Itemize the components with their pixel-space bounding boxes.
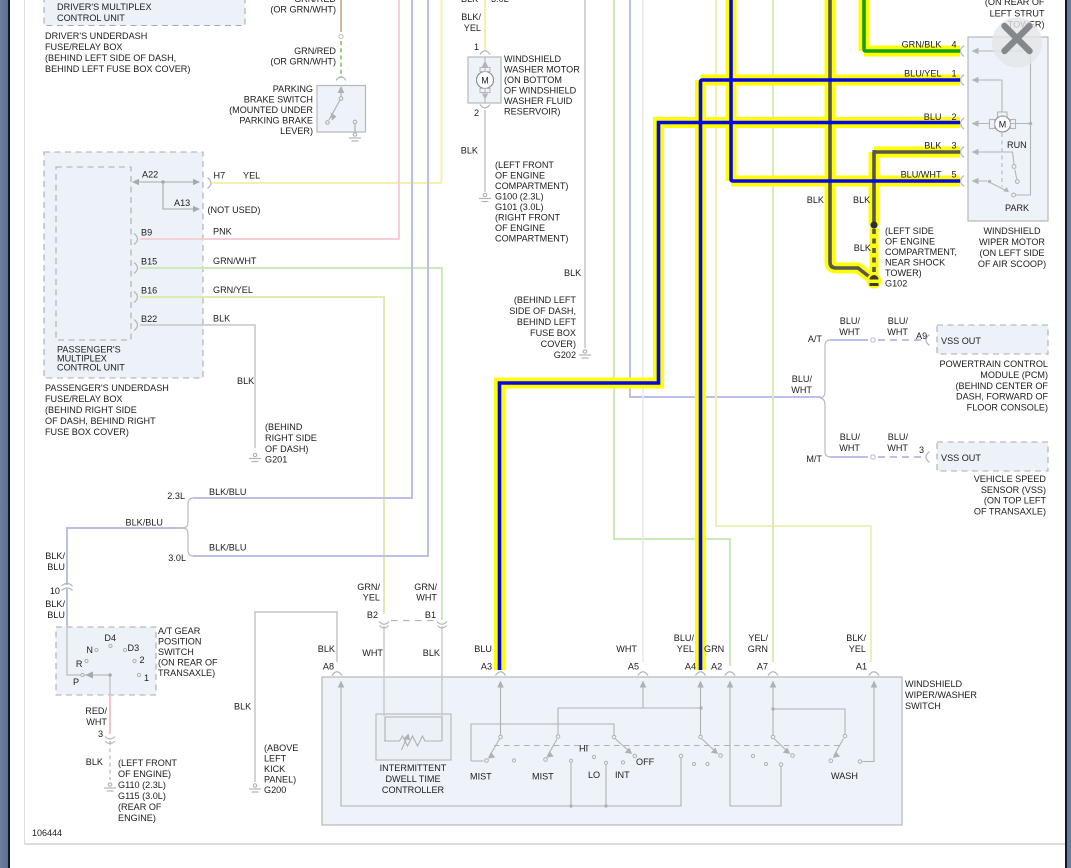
svg-text:SENSOR (VSS): SENSOR (VSS): [981, 485, 1046, 495]
svg-text:WHT: WHT: [362, 648, 383, 658]
svg-text:BLK: BLK: [924, 141, 941, 151]
svg-text:CONTROL UNIT: CONTROL UNIT: [57, 363, 125, 373]
svg-text:3: 3: [952, 141, 957, 151]
svg-text:WHT: WHT: [839, 327, 860, 337]
svg-text:WHT: WHT: [616, 644, 637, 654]
svg-text:(LEFT SIDE: (LEFT SIDE: [885, 226, 934, 236]
svg-text:COMPARTMENT): COMPARTMENT): [495, 234, 568, 244]
svg-text:LEFT: LEFT: [264, 754, 287, 764]
svg-text:A7: A7: [757, 662, 768, 672]
svg-text:BRAKE SWITCH: BRAKE SWITCH: [244, 95, 313, 105]
svg-text:N: N: [86, 645, 93, 655]
svg-text:3: 3: [919, 445, 924, 455]
svg-text:4: 4: [952, 40, 957, 50]
svg-text:1: 1: [144, 673, 149, 683]
svg-text:G202: G202: [554, 350, 576, 360]
svg-text:(REAR OF: (REAR OF: [118, 802, 162, 812]
svg-text:FUSE/RELAY BOX: FUSE/RELAY BOX: [45, 394, 123, 404]
svg-text:(BEHIND RIGHT SIDE: (BEHIND RIGHT SIDE: [45, 405, 137, 415]
svg-text:M: M: [999, 120, 1007, 130]
svg-text:G100 (2.3L): G100 (2.3L): [495, 192, 544, 202]
svg-text:2: 2: [952, 112, 957, 122]
svg-text:BLU/: BLU/: [792, 374, 813, 384]
svg-text:A13: A13: [174, 198, 190, 208]
svg-text:GRN: GRN: [748, 644, 768, 654]
svg-text:MODULE (PCM): MODULE (PCM): [980, 370, 1048, 380]
svg-text:BLU/: BLU/: [840, 316, 861, 326]
svg-text:OF AIR SCOOP): OF AIR SCOOP): [978, 259, 1046, 269]
svg-text:WASHER FLUID: WASHER FLUID: [504, 96, 573, 106]
svg-text:CONTROLLER: CONTROLLER: [382, 785, 445, 795]
svg-text:BLU/: BLU/: [888, 316, 909, 326]
svg-text:OF ENGINE: OF ENGINE: [495, 223, 545, 233]
svg-text:GRN/YEL: GRN/YEL: [213, 285, 253, 295]
svg-text:(NOT USED): (NOT USED): [208, 205, 261, 215]
svg-text:3.0L: 3.0L: [168, 553, 186, 563]
svg-text:D4: D4: [104, 633, 116, 643]
svg-text:BLU/: BLU/: [674, 633, 695, 643]
svg-text:FUSE/RELAY BOX: FUSE/RELAY BOX: [45, 42, 123, 52]
svg-text:M: M: [481, 76, 489, 86]
svg-text:FUSE BOX: FUSE BOX: [530, 328, 576, 338]
svg-text:WHT: WHT: [86, 717, 107, 727]
svg-text:VSS OUT: VSS OUT: [941, 336, 981, 346]
svg-text:POSITION: POSITION: [158, 637, 201, 647]
svg-text:WHT: WHT: [416, 593, 437, 603]
svg-text:G102: G102: [885, 279, 907, 289]
svg-text:BLU: BLU: [47, 610, 65, 620]
svg-text:GRN: GRN: [704, 644, 724, 654]
svg-text:1: 1: [474, 42, 479, 52]
svg-text:(MOUNTED UNDER: (MOUNTED UNDER: [229, 105, 313, 115]
svg-text:WHT: WHT: [839, 443, 860, 453]
svg-text:YEL: YEL: [464, 23, 481, 33]
svg-text:OF ENGINE: OF ENGINE: [885, 237, 935, 247]
svg-text:G115 (3.0L): G115 (3.0L): [118, 791, 166, 801]
svg-text:BLK: BLK: [853, 195, 870, 205]
svg-text:P: P: [73, 677, 79, 687]
svg-text:PANEL): PANEL): [264, 775, 296, 785]
svg-text:BLK: BLK: [807, 195, 824, 205]
svg-text:OF DASH, BEHIND RIGHT: OF DASH, BEHIND RIGHT: [45, 416, 156, 426]
svg-text:COMPARTMENT): COMPARTMENT): [495, 181, 568, 191]
svg-text:A/T GEAR: A/T GEAR: [158, 626, 201, 636]
svg-text:DASH, FORWARD OF: DASH, FORWARD OF: [956, 392, 1048, 402]
svg-text:BEHIND LEFT: BEHIND LEFT: [517, 317, 577, 327]
svg-text:WINDSHIELD: WINDSHIELD: [905, 679, 963, 689]
svg-text:SWITCH: SWITCH: [158, 647, 194, 657]
svg-text:WINDSHIELD: WINDSHIELD: [504, 54, 562, 64]
svg-text:(ON BOTTOM: (ON BOTTOM: [504, 75, 562, 85]
svg-text:BLK: BLK: [461, 0, 478, 4]
svg-text:PARKING BRAKE: PARKING BRAKE: [239, 116, 313, 126]
svg-text:WIPER MOTOR: WIPER MOTOR: [979, 237, 1045, 247]
svg-text:(BEHIND LEFT SIDE OF DASH,: (BEHIND LEFT SIDE OF DASH,: [45, 53, 176, 63]
svg-text:DRIVER'S UNDERDASH: DRIVER'S UNDERDASH: [45, 31, 147, 41]
svg-text:OF ENGINE): OF ENGINE): [118, 769, 171, 779]
svg-text:HI: HI: [579, 744, 588, 754]
svg-text:A22: A22: [142, 170, 158, 180]
svg-text:COMPARTMENT,: COMPARTMENT,: [885, 247, 957, 257]
svg-text:KICK: KICK: [264, 764, 285, 774]
svg-text:GRN/WHT: GRN/WHT: [213, 256, 257, 266]
svg-text:BLK: BLK: [854, 243, 871, 253]
svg-text:BLK: BLK: [461, 146, 478, 156]
svg-text:(ON TOP LEFT: (ON TOP LEFT: [984, 496, 1047, 506]
svg-text:A2: A2: [711, 662, 722, 672]
svg-text:M/T: M/T: [806, 454, 822, 464]
svg-text:PARK: PARK: [1005, 203, 1029, 213]
svg-text:A4: A4: [685, 662, 696, 672]
svg-text:GRN/: GRN/: [414, 582, 437, 592]
svg-text:NEAR SHOCK: NEAR SHOCK: [885, 258, 945, 268]
svg-text:B22: B22: [141, 314, 157, 324]
svg-text:YEL/: YEL/: [748, 633, 768, 643]
svg-text:10: 10: [50, 586, 60, 596]
svg-text:WHT: WHT: [887, 443, 908, 453]
svg-text:BLK: BLK: [237, 376, 254, 386]
svg-text:2: 2: [474, 108, 479, 118]
svg-text:FUSE BOX COVER): FUSE BOX COVER): [45, 427, 129, 437]
svg-text:5: 5: [952, 170, 957, 180]
svg-text:(BEHIND CENTER OF: (BEHIND CENTER OF: [956, 381, 1049, 391]
svg-text:BLK/: BLK/: [846, 633, 866, 643]
svg-text:(ON REAR OF: (ON REAR OF: [158, 658, 218, 668]
svg-text:GRN/BLK: GRN/BLK: [902, 40, 942, 50]
svg-text:LEVER): LEVER): [280, 126, 313, 136]
svg-text:CONTROL UNIT: CONTROL UNIT: [57, 13, 125, 23]
svg-text:H7: H7: [214, 171, 226, 181]
svg-text:RUN: RUN: [1007, 140, 1027, 150]
svg-text:YEL: YEL: [363, 593, 380, 603]
svg-text:3.0L: 3.0L: [491, 0, 509, 4]
svg-text:(OR GRN/WHT): (OR GRN/WHT): [270, 57, 336, 67]
svg-text:OF WINDSHIELD: OF WINDSHIELD: [504, 86, 577, 96]
svg-text:BLU/YEL: BLU/YEL: [904, 69, 941, 79]
svg-text:B1: B1: [425, 610, 436, 620]
svg-text:MIST: MIST: [532, 772, 554, 782]
svg-text:(ABOVE: (ABOVE: [264, 743, 298, 753]
svg-text:OF TRANSAXLE): OF TRANSAXLE): [974, 507, 1046, 517]
svg-text:INT: INT: [615, 770, 630, 780]
svg-text:YEL: YEL: [243, 171, 260, 181]
svg-text:TOWER): TOWER): [885, 268, 922, 278]
svg-text:BLK: BLK: [234, 702, 251, 712]
svg-text:FLOOR CONSOLE): FLOOR CONSOLE): [967, 403, 1048, 413]
svg-text:B15: B15: [141, 257, 157, 267]
svg-text:A8: A8: [323, 662, 334, 672]
svg-text:3: 3: [98, 729, 103, 739]
svg-text:(BEHIND: (BEHIND: [265, 422, 303, 432]
svg-text:PARKING: PARKING: [273, 84, 313, 94]
svg-text:G201: G201: [265, 455, 287, 465]
svg-text:LO: LO: [588, 770, 600, 780]
svg-text:YEL: YEL: [849, 644, 866, 654]
svg-text:(ON LEFT SIDE: (ON LEFT SIDE: [979, 248, 1044, 258]
svg-text:YEL: YEL: [677, 644, 694, 654]
svg-text:G101 (3.0L): G101 (3.0L): [495, 202, 544, 212]
svg-text:(RIGHT FRONT: (RIGHT FRONT: [495, 213, 560, 223]
svg-text:A5: A5: [628, 662, 639, 672]
svg-text:OF DASH): OF DASH): [265, 444, 308, 454]
svg-text:(ON REAR OF: (ON REAR OF: [985, 0, 1045, 7]
svg-text:A9: A9: [916, 331, 927, 341]
svg-text:BLK/: BLK/: [45, 551, 65, 561]
svg-text:RESERVOIR): RESERVOIR): [504, 107, 560, 117]
svg-text:DWELL TIME: DWELL TIME: [385, 774, 440, 784]
svg-text:BLK/: BLK/: [45, 599, 65, 609]
svg-text:(OR GRN/WHT): (OR GRN/WHT): [270, 5, 336, 15]
svg-text:PNK: PNK: [213, 227, 232, 237]
svg-text:BEHIND LEFT FUSE BOX COVER): BEHIND LEFT FUSE BOX COVER): [45, 64, 190, 74]
svg-text:DRIVER'S MULTIPLEX: DRIVER'S MULTIPLEX: [57, 2, 152, 12]
svg-text:G110 (2.3L): G110 (2.3L): [118, 780, 166, 790]
svg-text:PASSENGER'S UNDERDASH: PASSENGER'S UNDERDASH: [45, 383, 169, 393]
svg-text:ENGINE): ENGINE): [118, 813, 156, 823]
svg-text:2.3L: 2.3L: [167, 491, 185, 501]
svg-text:INTERMITTENT: INTERMITTENT: [380, 763, 447, 773]
svg-text:A/T: A/T: [808, 334, 823, 344]
svg-text:WASHER MOTOR: WASHER MOTOR: [504, 65, 580, 75]
svg-text:BLU: BLU: [47, 562, 65, 572]
svg-text:WASH: WASH: [831, 771, 858, 781]
svg-text:BLU/: BLU/: [840, 432, 861, 442]
svg-text:BLU/WHT: BLU/WHT: [901, 170, 942, 180]
svg-text:BLK/: BLK/: [461, 12, 481, 22]
svg-text:SIDE OF DASH,: SIDE OF DASH,: [509, 306, 576, 316]
svg-text:BLK/BLU: BLK/BLU: [209, 543, 246, 553]
svg-text:BLK: BLK: [564, 268, 581, 278]
svg-text:GRN/RED: GRN/RED: [294, 0, 336, 4]
svg-text:2: 2: [140, 655, 145, 665]
svg-text:WHT: WHT: [791, 385, 812, 395]
svg-text:OFF: OFF: [636, 757, 655, 767]
svg-text:GRN/RED: GRN/RED: [294, 46, 336, 56]
svg-text:RED/: RED/: [85, 706, 107, 716]
svg-text:BLU/: BLU/: [888, 432, 909, 442]
svg-text:A3: A3: [481, 662, 492, 672]
svg-text:106444: 106444: [32, 828, 62, 838]
svg-text:B9: B9: [141, 228, 152, 238]
svg-text:BLK: BLK: [86, 757, 103, 767]
svg-text:BLU: BLU: [474, 644, 492, 654]
svg-text:G200: G200: [264, 785, 286, 795]
svg-text:(LEFT FRONT: (LEFT FRONT: [118, 758, 177, 768]
svg-text:B2: B2: [367, 610, 378, 620]
svg-text:LEFT STRUT: LEFT STRUT: [990, 9, 1045, 19]
svg-text:VEHICLE SPEED: VEHICLE SPEED: [974, 474, 1047, 484]
svg-text:SWITCH: SWITCH: [905, 701, 941, 711]
svg-text:BLK: BLK: [318, 644, 335, 654]
svg-text:R: R: [76, 659, 83, 669]
svg-text:OF ENGINE: OF ENGINE: [495, 171, 545, 181]
svg-text:D3: D3: [128, 643, 140, 653]
svg-text:WINDSHIELD: WINDSHIELD: [983, 226, 1041, 236]
svg-text:BLK/BLU: BLK/BLU: [209, 487, 246, 497]
svg-text:BLU: BLU: [924, 112, 942, 122]
svg-text:A1: A1: [856, 662, 867, 672]
svg-text:VSS OUT: VSS OUT: [941, 453, 981, 463]
svg-text:WIPER/WASHER: WIPER/WASHER: [905, 690, 977, 700]
svg-text:(BEHIND LEFT: (BEHIND LEFT: [514, 295, 577, 305]
svg-text:B16: B16: [141, 286, 157, 296]
svg-text:WHT: WHT: [887, 327, 908, 337]
svg-text:1: 1: [952, 69, 957, 79]
svg-text:BLK: BLK: [213, 314, 230, 324]
svg-text:COVER): COVER): [541, 339, 576, 349]
svg-text:RIGHT SIDE: RIGHT SIDE: [265, 433, 317, 443]
svg-text:BLK/BLU: BLK/BLU: [126, 518, 163, 528]
svg-text:(LEFT FRONT: (LEFT FRONT: [495, 160, 554, 170]
svg-text:MIST: MIST: [470, 772, 492, 782]
svg-text:BLK: BLK: [423, 648, 440, 658]
svg-text:TRANSAXLE): TRANSAXLE): [158, 668, 215, 678]
svg-text:POWERTRAIN CONTROL: POWERTRAIN CONTROL: [940, 359, 1048, 369]
svg-text:GRN/: GRN/: [357, 582, 380, 592]
